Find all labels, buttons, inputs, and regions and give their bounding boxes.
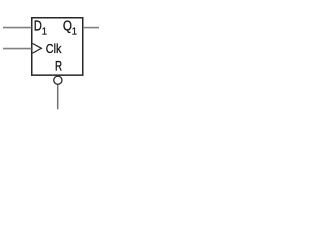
- svg-text:R: R: [55, 58, 62, 74]
- svg-text:Clk: Clk: [46, 41, 62, 56]
- svg-text:Q: Q: [63, 17, 72, 34]
- svg-text:1: 1: [42, 26, 48, 38]
- svg-text:1: 1: [72, 26, 78, 38]
- svg-text:D: D: [34, 17, 42, 34]
